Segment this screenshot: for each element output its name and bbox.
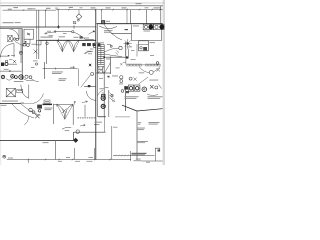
text bottom right room (149, 122, 160, 125)
top wall right segment (97, 23, 163, 25)
laundry box dark fill (143, 47, 147, 50)
lower wall y140.5 (0, 140, 73, 142)
text under hall wall (1, 104, 7, 107)
laundry text 2 (139, 71, 145, 74)
bottom dim main line (7, 159, 131, 161)
top wall left inner line (0, 28, 22, 30)
dimension text 9-0 (69, 7, 73, 8)
dimension line tier1 (1, 5, 163, 7)
landing line y73 (96, 72, 111, 74)
stair wiring arc 2 (105, 54, 123, 57)
bottom text left (8, 157, 13, 160)
wiring arc kitchen left (45, 31, 72, 34)
wiring arc lights 3 (31, 79, 39, 82)
fan stem curve (127, 48, 130, 59)
hall wall y103.5 (0, 103, 33, 105)
wall jog vertical x73.3 (72, 132, 74, 140)
closet line bottom mid (73, 131, 105, 133)
stair circle fixture (119, 46, 122, 49)
wiring arc from fixture (81, 75, 91, 88)
stairs rail (100, 45, 102, 65)
wiring switch circle (72, 31, 74, 33)
wiring arc lights (6, 79, 12, 81)
hall dark cluster (37, 105, 42, 113)
bed door arc small (24, 117, 29, 125)
counter stub y56 (0, 55, 9, 56)
dimension text 5-6 (91, 6, 96, 9)
text marks above wall right (74, 36, 90, 38)
page left edge (0, 0, 1, 165)
dim text extra right (32, 7, 149, 9)
bath text vertical (100, 88, 105, 93)
vertical wall x39 (38, 10, 40, 59)
living rm label (104, 30, 113, 33)
laundry text (150, 41, 156, 44)
wiring text 22A (86, 38, 93, 41)
light donut d (19, 75, 23, 79)
duplex outlet pair (23, 43, 29, 46)
bed door ticks (57, 104, 73, 107)
left vertical wall x22 (21, 29, 22, 80)
bedroom wall x137 vertical (136, 111, 138, 160)
bath wall x104.2 (103, 45, 105, 118)
wall tick text hall (21, 102, 25, 105)
stairs arrow (102, 67, 104, 74)
smoke detector diamond (74, 138, 78, 142)
sink (101, 104, 105, 108)
bath dim arrow mid (82, 101, 88, 103)
range appliance (143, 24, 153, 29)
wall fixture hatched box B (102, 21, 110, 24)
hall specks (99, 78, 123, 88)
bath fixture cluster right (121, 86, 129, 93)
bath wall x110.5 (110, 57, 112, 75)
vertical ext x155.3 (154, 148, 156, 161)
dimension tier2 ticks (23, 9, 161, 11)
cabinet specks x33-40 (31, 61, 38, 68)
text below bottom line (134, 159, 142, 162)
bedroom diagonal wall (122, 105, 137, 111)
dimension line tier2 (3, 9, 163, 12)
vertical ext x28 (27, 160, 29, 164)
wiring letter specks B (84, 49, 93, 55)
wall fixture hatched box A (73, 21, 76, 23)
text walkin closet (125, 96, 139, 99)
text small above wall mid (41, 36, 66, 37)
stairs treads (98, 45, 104, 65)
bedroom wall y108.7 (137, 109, 163, 111)
arc from Xbox (15, 42, 24, 47)
pocket door dark bar (43, 104, 53, 106)
wall oven appliance (1, 63, 8, 67)
door X symbol box (8, 35, 13, 41)
box below closet (24, 39, 30, 44)
hall wiring arc low (12, 104, 34, 118)
stairs text top (98, 41, 104, 44)
dining vertical x46.4 (45, 40, 47, 64)
page right edge (163, 0, 165, 165)
cluster above ovens (5, 59, 16, 63)
wic fixtures b (135, 85, 140, 91)
bed closet wall x53.5 (53, 104, 55, 124)
extension line x160.8 (160, 6, 162, 24)
top wall left segment (0, 26, 59, 28)
wall fixture circle right (91, 72, 94, 75)
closet band ticks (127, 64, 160, 66)
stack text topcenter (93, 43, 101, 48)
top wall left segment faded (59, 26, 97, 28)
tiny text right of outlets (32, 43, 37, 46)
living room wiring arc 2 (104, 25, 122, 41)
closet band y63.5 (127, 64, 160, 66)
living room wiring arc (99, 26, 117, 29)
vertical ext x74.7 bottom (74, 148, 76, 160)
bath inner arc (98, 90, 104, 95)
window marks bed (138, 123, 142, 124)
page top edge line (0, 2, 165, 5)
appliance text row (8, 63, 17, 66)
right wall x130.7 upper (130, 10, 132, 24)
bottom texts below line (58, 160, 93, 163)
dining tick (54, 68, 56, 70)
laundry inner marks (139, 45, 149, 50)
bottom text 8-0 (146, 161, 150, 164)
dimension text 2-2 (106, 6, 111, 9)
wiring letter specks A (47, 31, 67, 34)
landing X speck (116, 62, 126, 68)
hall fixture circles (29, 108, 35, 113)
outlet circles by Xbox (13, 38, 18, 41)
thermostat X box (6, 88, 15, 97)
text under diag (137, 141, 148, 143)
laundry circle below (149, 70, 153, 74)
dimension text 2-10b (46, 8, 51, 9)
toilet (101, 94, 105, 100)
light circle f (29, 76, 32, 79)
bottom dim ticks left (28, 159, 111, 161)
junction dot stairs (104, 57, 106, 59)
right side specks (150, 55, 159, 64)
laundry X mark (157, 68, 161, 72)
stair wiring arc (105, 48, 119, 52)
wiring arrow livingroom (89, 31, 96, 34)
closet vertical x112 (112, 126, 118, 160)
closet rect topleft (24, 29, 34, 39)
hall opening arc (33, 94, 44, 104)
laundry divider x137 (136, 44, 138, 57)
wiring text xx (49, 34, 54, 37)
light circle e (25, 75, 28, 78)
dining fixture circle (46, 42, 48, 44)
dining dim arrow (70, 66, 75, 68)
fan symbol diamond (76, 14, 82, 21)
hall wall x104.6 lower (104, 117, 106, 132)
wic marks d (150, 85, 162, 90)
light donut b (11, 75, 15, 79)
extension line x127 (126, 10, 128, 24)
outlet symbols right wall (82, 39, 100, 46)
hall cluster circles (120, 76, 123, 83)
vanity marks (110, 93, 116, 103)
wall tick x74 (73, 25, 75, 28)
extension line x45.7 (45, 10, 47, 27)
text DINING RM (52, 72, 63, 75)
text main floor label (3, 22, 21, 23)
hall text 3 (149, 79, 158, 82)
dash row above bath wall (78, 117, 96, 120)
extension line x36 (35, 10, 37, 59)
bath door arc (87, 91, 96, 100)
counter line y33.3 (111, 32, 132, 34)
marks under appliances (144, 30, 151, 33)
bath niche wall x85 (84, 105, 86, 117)
vertical wall x55.7 (55, 141, 57, 160)
bottom text 8-0 mid (89, 156, 94, 159)
room label text block (138, 128, 146, 130)
kitchen wall y40 (39, 39, 96, 41)
vertical ext x130.7 bottom (130, 151, 132, 161)
laundry small text 2 (131, 58, 136, 61)
bath divider x108.8 (108, 90, 110, 117)
stairs up text (99, 68, 104, 71)
light donut a (1, 75, 4, 78)
right wall x125.5 lower (124, 86, 126, 111)
text dining size (59, 78, 67, 81)
bed wall line y104.4 (54, 103, 74, 105)
central wall vertical pair (96, 10, 98, 160)
hall diagonal wire (139, 77, 148, 84)
landing line y57.2 (104, 56, 126, 58)
right wall x125.5 upper (125, 42, 127, 57)
closet symbol (27, 33, 30, 36)
dimension text 8-0 (136, 2, 142, 5)
hall swing arc 2 (21, 104, 41, 116)
dimension text 14-6 (154, 6, 161, 9)
hall circles bottom (129, 77, 137, 81)
bed3 arc fixture (62, 127, 79, 133)
junction block landing right (126, 56, 128, 64)
door arc topleft room (9, 29, 20, 40)
gas meter circle G (3, 155, 6, 158)
dimension text 2-10a (28, 8, 33, 9)
dimension text 240 (8, 7, 18, 10)
text master label (148, 96, 163, 99)
wic arc (147, 94, 158, 95)
dark mark near wall (88, 85, 91, 87)
mid dim arrow (74, 101, 76, 105)
bracket bottom right (156, 148, 160, 151)
living specks (107, 44, 112, 47)
double door arcs dining (57, 40, 80, 52)
stair landing box (98, 67, 104, 74)
extension line x58 (57, 10, 59, 27)
dimension text 9-8 (122, 6, 127, 9)
bottom dim right tier (113, 155, 155, 157)
wiring arc to right (74, 32, 86, 40)
wall x44.5 vertical (44, 62, 46, 79)
ceiling fan asterisk (124, 39, 132, 48)
bath text lower (94, 122, 102, 125)
extension line x146.3 (145, 10, 147, 24)
laundry specks (128, 47, 135, 51)
bath wall y86.5 (84, 86, 96, 88)
text row lower kitchen (14, 80, 23, 83)
counter line y71 (0, 70, 22, 71)
bottom text 2-0 (66, 156, 70, 159)
fixture circle C (19, 51, 22, 54)
slash marks by circle (116, 51, 120, 55)
bed door X mark (62, 109, 67, 114)
stairs side (97, 45, 99, 67)
kitchen text (133, 25, 139, 28)
bed label rect (44, 100, 50, 103)
label beside X box (17, 89, 23, 93)
stairs left speck text (87, 51, 93, 54)
wic circle c (142, 87, 147, 92)
hall X mark low (35, 114, 39, 118)
tiny text y55 (11, 54, 15, 57)
bottom dense text row (115, 153, 147, 157)
bottom dim right lower (142, 160, 163, 162)
kitchen counter rect (132, 25, 162, 41)
arrow lower left bath (80, 124, 85, 126)
text above counter (4, 68, 9, 71)
hall text (108, 76, 119, 78)
dining wall y68.5 (43, 68, 78, 70)
text bed rm (45, 108, 53, 111)
letter H symbol (125, 29, 129, 30)
wall tick x58.5 (58, 25, 60, 29)
closet diagonal (105, 63, 111, 74)
bed double door arcs (57, 105, 73, 120)
wic fixtures a (128, 85, 133, 91)
extension line x101.7 (101, 10, 103, 24)
tiny text above hall wall (2, 100, 18, 103)
small rect on x39 wall (36, 40, 41, 45)
oven appliance (154, 24, 164, 29)
bed3 text 2x marks (43, 141, 49, 144)
vertical ext x94.7 bottom (94, 148, 96, 160)
bath wall y116.8 (98, 116, 130, 118)
laundry arcs (139, 67, 160, 73)
dining ext vertical x78.3 (77, 69, 79, 87)
door arc left edge (0, 44, 14, 58)
fan cross symbol (89, 64, 92, 67)
bottom text 24-0 (136, 158, 141, 161)
laundry box (139, 41, 149, 51)
landing marks (106, 58, 111, 61)
hall door arc (21, 85, 29, 99)
kitchen wall tick x58.6 (58, 39, 60, 42)
switch X mark (34, 50, 38, 54)
light donut c (15, 76, 18, 79)
wiring arc lights 2 (23, 79, 34, 81)
extension line x79 (78, 10, 80, 15)
bed wall x73.2 (72, 105, 74, 125)
